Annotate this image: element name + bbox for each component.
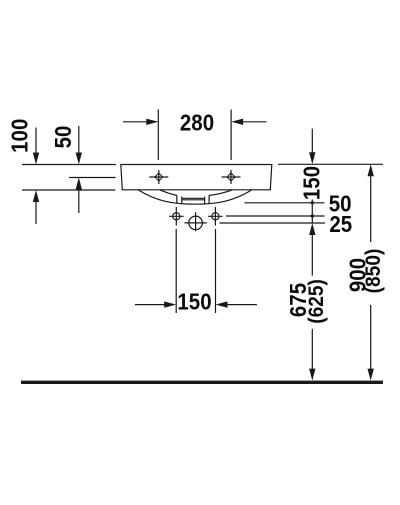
tap hole left diamond: [155, 173, 163, 181]
dim 150 bottom right extension line: [215, 229, 217, 313]
dim 100 bottom extension line (basin bottom, left): [22, 189, 116, 191]
fixing hole right cross: [208, 207, 223, 226]
dim 280 right arrow: [231, 119, 266, 125]
svg-text:25: 25: [329, 211, 352, 237]
tap hole left cross: [149, 170, 168, 184]
svg-text:(625): (625): [305, 279, 328, 324]
svg-text:100: 100: [6, 119, 32, 153]
svg-text:(850): (850): [362, 249, 385, 294]
dim 25 up arrow + 675 dim line upper part: [309, 223, 315, 276]
drain hole cross: [185, 212, 207, 231]
washbasin body outline: [121, 165, 272, 190]
dim 50 up arrow: [76, 178, 82, 214]
dim 100 up arrow: [33, 190, 39, 224]
dim 150 bottom right arrow: [216, 301, 257, 307]
level line fixing holes (right): [226, 215, 325, 217]
siphon cover lower line: [182, 199, 205, 201]
dim line vertical segment through dots: [311, 200, 313, 224]
dim dot at 150 level: [311, 201, 314, 204]
dim 100 down arrow: [33, 128, 39, 165]
siphon cover right vertical: [208, 195, 210, 204]
svg-text:280: 280: [180, 110, 214, 136]
dim 150 bottom left arrow: [135, 301, 176, 307]
fixing hole right circle: [212, 213, 219, 220]
dim 100 top extension line (basin top, left): [22, 164, 116, 166]
dim 900 up arrow + line upper part: [368, 164, 374, 242]
floor line: [21, 381, 383, 384]
level line drain (right): [220, 222, 326, 224]
siphon cover left vertical: [176, 195, 178, 204]
svg-text:150: 150: [298, 166, 324, 200]
dim 150 right down arrow: [309, 129, 315, 165]
fixing hole left cross: [169, 207, 184, 226]
dim 280 left arrow: [123, 119, 158, 125]
tap hole right cross: [222, 170, 241, 184]
dim 50 down arrow: [76, 126, 82, 165]
bowl outer arc: [138, 190, 252, 204]
dim 280 left extension line: [157, 110, 159, 161]
dim 50 extension line (left): [69, 177, 116, 179]
dim 675 line lower part + down arrow at floor: [309, 329, 315, 381]
fixing hole left circle: [173, 213, 180, 220]
siphon cover left inner vertical: [181, 197, 183, 204]
bowl inner arc right: [209, 190, 233, 196]
svg-text:150: 150: [177, 288, 211, 314]
level line 150 below top (right): [244, 202, 324, 204]
svg-text:50: 50: [50, 126, 76, 149]
dim 150 bottom left extension line: [175, 229, 177, 313]
dim 900 line lower part + down arrow at floor: [368, 305, 374, 381]
dim 280 right extension line: [230, 110, 232, 161]
tap hole right diamond: [227, 173, 235, 181]
basin top extension line right: [278, 163, 383, 165]
bowl inner arc left: [160, 190, 177, 196]
drain hole circle: [189, 216, 203, 230]
siphon cover top line: [182, 197, 205, 199]
dim dot at fixing hole level: [311, 214, 314, 217]
siphon cover right inner vertical: [204, 197, 206, 204]
